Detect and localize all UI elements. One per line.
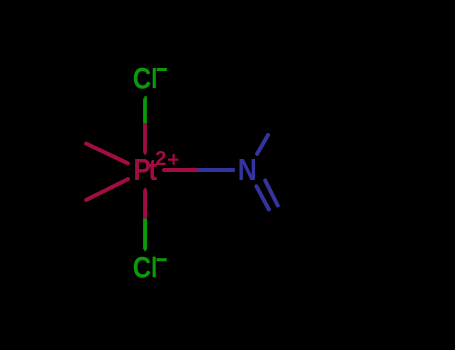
- wire: Pt–CH3 upper-left bond: [86, 144, 128, 164]
- wire: Pt–Cl top bond crimson half: [143, 123, 147, 155]
- node: N label: [238, 153, 257, 187]
- node: Cl- top label letter l: [153, 68, 156, 88]
- svg-text:Pt: Pt: [133, 153, 157, 187]
- wire: N ring bond up-right: [257, 135, 268, 154]
- wire: N=C double bond outer line: [265, 181, 278, 206]
- node: Pt charge plus horizontal bar: [168, 159, 178, 161]
- node: Pt charge plus vertical bar: [173, 154, 175, 165]
- svg-text:2: 2: [155, 148, 166, 170]
- node: Cl- bottom label letter l: [153, 257, 156, 278]
- wire: Pt–Cl bottom bond green half: [143, 219, 147, 252]
- wire: Pt–N bond blue half: [198, 168, 235, 172]
- node: Cl- top label: [133, 62, 151, 95]
- wire: Pt–Cl top bond green half: [143, 96, 147, 123]
- svg-text:C: C: [133, 251, 151, 284]
- svg-text:C: C: [133, 62, 151, 95]
- node: Cl- bottom charge minus: [157, 258, 167, 261]
- node: Cl- top charge minus: [157, 68, 167, 71]
- wire: N=C double bond inner line: [256, 186, 269, 209]
- node: Cl- bottom label: [133, 251, 151, 284]
- wire: Pt–Cl bottom bond crimson half: [143, 187, 147, 219]
- node: Pt center label: [133, 153, 157, 187]
- wire: Pt–N bond crimson half: [161, 168, 197, 172]
- wire: Pt–CH3 lower-left bond: [86, 179, 128, 200]
- svg-text:N: N: [238, 153, 257, 187]
